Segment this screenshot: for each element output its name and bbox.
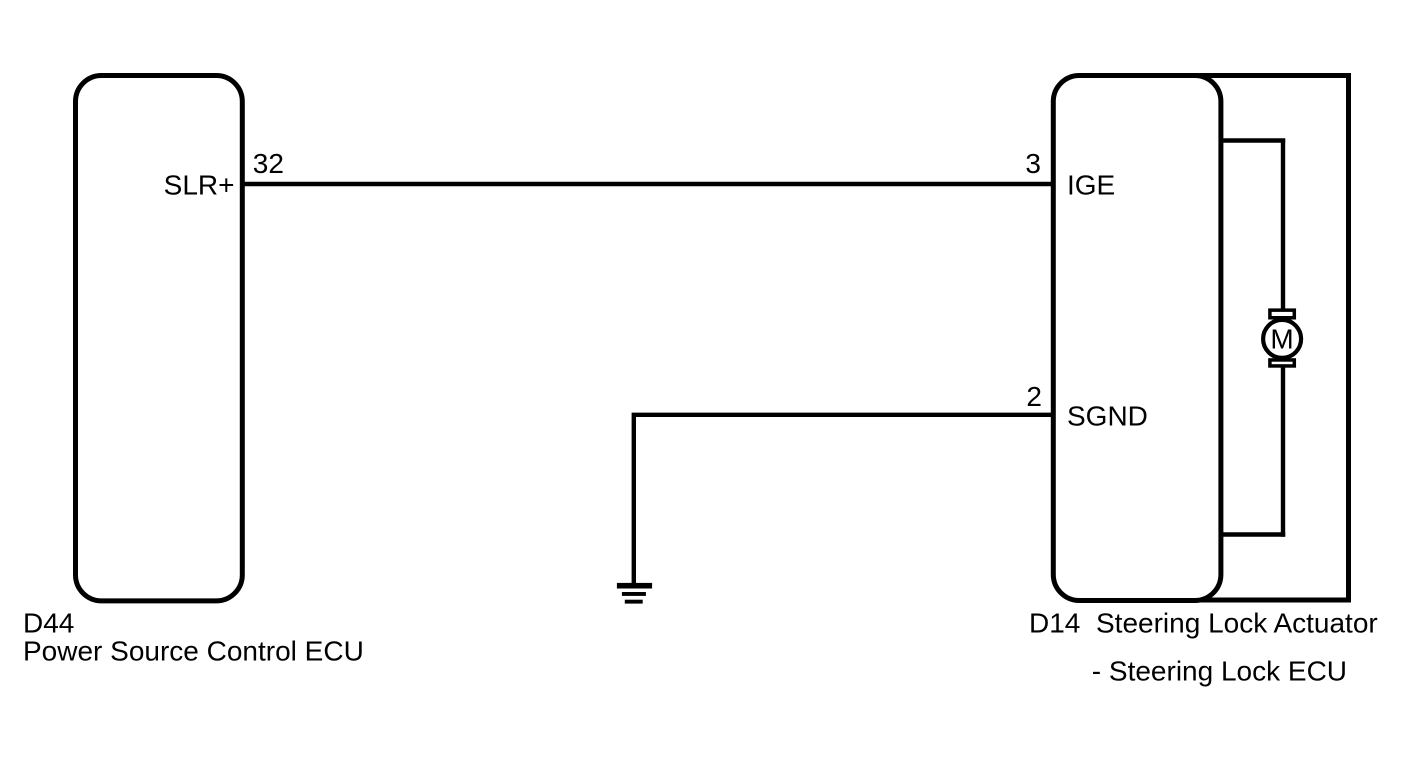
svg-text:Steering Lock Actuator: Steering Lock Actuator [1096,608,1378,639]
motor M1 top brush terminal [1270,310,1294,318]
svg-text:D44: D44 [23,608,74,639]
wire motor vertical bottom [1281,367,1285,537]
ground symbol bar 3 [625,600,643,604]
wire motor top stub [1219,138,1286,142]
svg-text:- Steering Lock ECU: - Steering Lock ECU [1092,655,1347,686]
actuator box (outer rectangle of D14 Steering Lock Actuator) [1150,76,1349,601]
ground symbol bar 2 [622,592,646,596]
svg-text:SLR+: SLR+ [164,170,235,201]
svg-text:M: M [1270,324,1293,355]
svg-text:SGND: SGND [1067,401,1148,432]
connector D14 (rounded rectangle, Steering Lock ECU) [1053,76,1221,601]
svg-text:IGE: IGE [1067,170,1115,201]
wire motor bottom stub [1219,532,1286,536]
svg-text:Power Source Control ECU: Power Source Control ECU [23,636,364,667]
svg-text:D14: D14 [1029,608,1080,639]
motor M1 bottom brush terminal [1270,360,1294,366]
connector D44 (rounded rectangle, Power Source Control ECU) [76,76,243,601]
wire motor vertical top [1281,139,1285,313]
svg-text:32: 32 [253,148,284,179]
ground symbol bar 1 [617,583,652,589]
wire W2 from ground to D14 pin 2 SGND [634,415,1054,585]
svg-text:2: 2 [1026,381,1042,412]
svg-text:3: 3 [1025,148,1041,179]
motor M1 body circle [1263,320,1301,358]
wire W1 from D44 pin 32 SLR+ to D14 pin 3 IGE [240,182,1053,186]
